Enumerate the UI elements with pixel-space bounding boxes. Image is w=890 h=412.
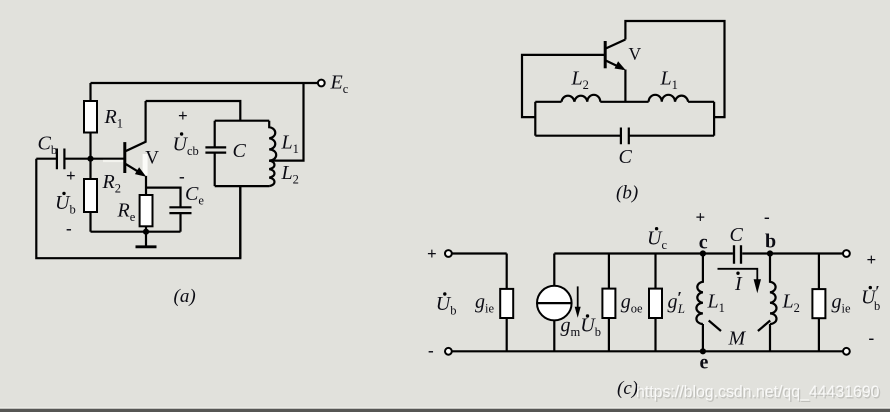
svg-text:I: I — [734, 273, 743, 295]
wire box left edge — [534, 102, 536, 136]
transistor V collector lead — [125, 101, 146, 152]
CIRCUIT B — [522, 21, 725, 204]
node c dot — [700, 250, 706, 256]
svg-text:+: + — [427, 244, 437, 263]
wire R2 bottom — [89, 212, 91, 232]
wire box right edge — [713, 102, 715, 136]
wire bottom rail — [448, 350, 846, 352]
svg-text:https://blog.csdn.net/qq_44431: https://blog.csdn.net/qq_44431690 — [636, 383, 880, 401]
wire Re bottom — [145, 226, 147, 231]
wire box top middle segment — [600, 101, 648, 103]
capacitor Ce plates — [169, 207, 191, 213]
svg-text:b: b — [765, 231, 776, 253]
transistor V emitter arrowhead — [135, 167, 146, 176]
terminal Ec — [318, 80, 325, 87]
transistor V emitter arrowhead — [615, 61, 626, 70]
capacitor C plates — [734, 245, 741, 263]
wire base — [91, 158, 124, 160]
svg-text:+: + — [867, 250, 877, 269]
node b dot — [767, 250, 773, 256]
terminal bottom-right — [843, 348, 850, 355]
svg-text:(c): (c) — [617, 378, 638, 399]
node E dot — [143, 229, 149, 235]
inductor L1 branch — [696, 254, 703, 352]
wire emitter to tap — [624, 70, 626, 102]
mutual inductance M ticks — [709, 321, 771, 332]
conductance g_ie output branch — [818, 254, 820, 352]
conductance g_ie input branch — [506, 254, 508, 352]
bottom bar — [0, 408, 890, 409]
wire Cb right lead — [64, 158, 90, 160]
svg-text:e: e — [700, 352, 709, 374]
svg-text:+: + — [696, 208, 706, 227]
wire top rail left section — [448, 252, 506, 254]
transistor V base bar — [123, 142, 126, 173]
inductor L2 — [562, 95, 601, 102]
svg-text:-: - — [179, 167, 185, 186]
wire top supply rail — [91, 82, 319, 84]
transistor V collector lead — [605, 40, 625, 49]
capacitor C plates — [205, 147, 226, 152]
resistor R2 — [84, 179, 97, 212]
wire top rail middle section — [554, 252, 733, 254]
wire bottom inner — [91, 231, 181, 233]
wire base left loop — [522, 55, 604, 117]
svg-text:-: - — [66, 219, 72, 238]
resistor R1 — [84, 101, 97, 133]
wire tank tap to Ec — [269, 83, 303, 161]
wire box bottom right — [629, 135, 714, 137]
wire tank bottom stub — [239, 186, 241, 258]
svg-text:C: C — [730, 224, 744, 246]
inductor L2 branch — [770, 254, 777, 352]
wire left feedback loop — [36, 159, 240, 259]
tank box left leads — [214, 121, 216, 186]
svg-text:-: - — [428, 341, 434, 360]
svg-text:V: V — [629, 44, 642, 64]
inductor L1 — [269, 121, 276, 161]
ground — [145, 232, 147, 246]
CIRCUIT A — [36, 72, 348, 307]
capacitor Ce bottom lead — [179, 213, 181, 232]
terminal top-right — [843, 250, 850, 257]
conductance g_oe branch — [608, 254, 610, 352]
transistor V emitter lead — [605, 60, 623, 69]
wire R1 top lead — [89, 83, 91, 101]
svg-text:C: C — [619, 146, 633, 168]
resistor Re — [140, 195, 153, 226]
svg-text:(b): (b) — [616, 183, 638, 204]
inductor L2 — [269, 161, 274, 187]
svg-text:V: V — [145, 147, 159, 168]
svg-text:+: + — [178, 106, 188, 125]
wire collector top — [146, 101, 241, 121]
svg-text:(a): (a) — [174, 286, 196, 307]
svg-text:-: - — [764, 208, 770, 227]
current source gmUb — [553, 254, 555, 352]
svg-text:M: M — [728, 328, 747, 350]
capacitor Cb plates — [57, 149, 65, 170]
wire R1 bottom to node B — [89, 133, 91, 180]
transistor V base bar — [604, 41, 607, 68]
capacitor C plates — [621, 128, 629, 145]
svg-text:c: c — [699, 231, 708, 253]
tank box bottom — [215, 185, 270, 187]
wire erase artifact patch — [143, 154, 148, 175]
svg-text:-: - — [869, 329, 875, 348]
capacitor Ce top lead — [146, 188, 181, 208]
transistor V emitter lead — [125, 164, 144, 176]
node B dot — [87, 156, 93, 162]
inductor L1 — [649, 95, 689, 102]
wire box top right segment — [688, 101, 714, 103]
svg-text:C: C — [233, 140, 247, 162]
arrow current I — [718, 269, 758, 280]
terminal bottom-left — [445, 348, 452, 355]
wire box top left segment — [535, 101, 561, 103]
wire box bottom left — [535, 135, 621, 137]
tank box top — [215, 120, 270, 122]
wire collector top loop — [625, 21, 724, 117]
wire emitter down — [145, 176, 147, 195]
conductance g'L branch — [654, 254, 656, 352]
wire Cb left lead — [36, 158, 57, 160]
svg-text:+: + — [66, 166, 76, 185]
wire top rail right section — [742, 252, 846, 254]
current source arrow — [577, 286, 579, 308]
terminal top-left — [445, 250, 452, 257]
node e dot — [700, 348, 706, 354]
CIRCUIT C — [427, 208, 881, 403]
